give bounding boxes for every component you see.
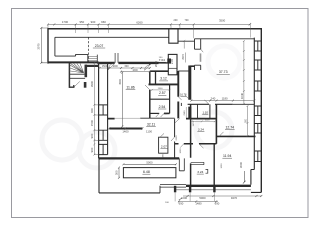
svg-text:2.54: 2.54 [159,105,166,109]
stair outer wall [68,63,70,88]
wall column junction [169,29,178,44]
wall 32.11 east [174,119,176,159]
svg-text:900: 900 [90,147,94,152]
svg-text:900: 900 [91,20,96,24]
svg-text:9470: 9470 [231,196,238,200]
stair newel bar [85,65,88,78]
svg-text:6.48: 6.48 [143,170,150,174]
wall right exterior [260,28,262,192]
pier ext lines [175,192,214,201]
lintel 32.11 [109,127,142,129]
doorway 37.73 jambs [195,39,201,70]
dim ext lines top [48,24,251,38]
dim terrace [122,163,176,165]
gate dashed line [88,37,90,62]
dim row bottom 2 [178,200,218,202]
wall 3.24l west [190,104,192,186]
dim vert corridor top [183,40,185,63]
stair landing walls [69,73,84,75]
svg-text:1180: 1180 [222,96,228,100]
dim terrace 300 [118,167,120,179]
pier 1 [174,186,176,193]
wall bottom right step [251,170,261,193]
terrace stoop [179,158,184,170]
svg-text:7.04: 7.04 [159,58,165,62]
door leaf 11.86 lower [145,85,150,90]
stair treads upper flight [88,56,98,60]
svg-text:1000: 1000 [221,163,223,169]
svg-text:3.12: 3.12 [160,77,167,81]
wall bottom thin outer [176,189,251,191]
pier 3 [213,186,215,193]
svg-text:3.24: 3.24 [197,170,203,174]
wall top inner [178,39,254,41]
wall 11.94 west [213,144,215,186]
wall x216 [215,104,217,144]
svg-text:1600: 1600 [132,69,138,72]
dim vert 11.86 [121,72,123,128]
door leaf y144 [199,144,204,149]
door leaf 2.07 [160,133,164,137]
svg-text:600: 600 [125,65,130,68]
watermark blobs [42,46,240,168]
svg-text:700: 700 [185,19,190,22]
stair fan treads [69,63,83,73]
wall under treads [85,65,99,67]
stair top landing [97,55,107,64]
svg-text:1700: 1700 [62,20,69,24]
svg-text:11.94: 11.94 [223,154,231,158]
wall right inner [253,38,255,170]
svg-text:300: 300 [115,170,119,175]
dim row bottom 1 [183,195,262,197]
svg-text:3.24: 3.24 [198,128,204,132]
dim line 2.57 [151,89,171,91]
svg-text:2.07: 2.07 [161,144,167,148]
svg-text:2000: 2000 [176,135,178,141]
wall y144 [175,143,217,145]
dim col left windows [93,62,98,156]
niche jambs [115,53,118,63]
door tick 32.11 east [171,137,175,141]
dim row top [48,23,251,25]
svg-text:3500: 3500 [119,79,122,85]
wall 3.12 left [155,71,157,84]
stair door leaf [74,81,80,86]
wall int vertical x150 [149,63,151,119]
wall 37.73 bottom [188,103,233,105]
svg-text:2980: 2980 [184,110,186,116]
window R1 [254,41,261,51]
wall room32 bottom [99,157,180,159]
svg-text:1040: 1040 [240,92,244,99]
stair bottom stub left [69,85,73,88]
svg-text:1000: 1000 [112,65,118,68]
dim chain right inner [243,40,245,105]
wall 2.57/2.54 divider [150,98,170,100]
window R4 [254,106,261,116]
svg-text:2.05: 2.05 [170,58,174,64]
stair bottom stub right [84,82,87,88]
wall porch bottom [99,192,160,194]
svg-text:900: 900 [90,108,94,113]
wall 37.73 west [188,66,191,119]
window R6 [254,151,261,162]
svg-text:23.07: 23.07 [95,44,104,48]
duct 2.05 box [168,54,177,74]
svg-text:1000: 1000 [181,196,188,200]
wall duct x169.6 [169,85,171,114]
svg-text:32.11: 32.11 [147,123,155,127]
svg-text:16.78: 16.78 [180,94,187,97]
dim garage left [40,27,48,64]
wall garage-main divider [99,62,159,64]
svg-text:1480: 1480 [195,202,202,206]
wall porch left [98,158,100,193]
halfwall 3.24l [191,162,204,164]
svg-text:1500: 1500 [90,119,94,126]
svg-text:5000: 5000 [199,196,206,200]
svg-text:200: 200 [174,19,179,22]
svg-text:3500: 3500 [219,18,226,22]
dim arrow bottom right [243,171,246,184]
door leaf 32.11 [175,119,180,123]
svg-text:900: 900 [90,133,94,138]
wall y118 [108,118,217,120]
svg-text:1000: 1000 [205,120,211,122]
wall 3.12 top [150,70,168,72]
wall bottom exterior [186,185,251,187]
wall left inner [107,63,109,155]
svg-text:6260: 6260 [136,20,143,24]
wall garage inner [55,37,169,62]
wall garage bottom [48,61,99,63]
wall hall west [177,71,179,118]
dim row2 11.86 [120,71,151,73]
pier at column [167,59,171,63]
svg-text:11.86: 11.86 [126,85,134,89]
wall top exterior [48,28,261,30]
svg-text:5000: 5000 [146,160,153,164]
terrace 6.48 [123,168,175,178]
wall under 3.12 [149,83,179,85]
door leaf 11.86 upper [145,65,150,71]
wall porch east [159,186,161,193]
svg-text:3900: 3900 [90,80,94,87]
dim chain right inner low [247,105,249,137]
svg-text:690: 690 [215,202,220,206]
wall 12.74 bottom [216,135,255,137]
svg-text:690: 690 [179,202,184,206]
dim row 11.86 [99,67,151,69]
svg-text:240: 240 [211,96,216,100]
door leaf hall-west [178,97,181,100]
svg-text:12.74: 12.74 [225,125,234,129]
svg-text:1.10: 1.10 [202,111,208,115]
svg-text:950: 950 [79,20,84,24]
dim minor central [186,107,216,122]
svg-text:2000: 2000 [154,60,158,67]
svg-text:1300: 1300 [158,88,164,90]
door leaf 37.73 open [200,53,202,61]
svg-text:2.57: 2.57 [159,91,166,95]
dim ticks top [47,23,251,25]
door jamb 3.24l [206,170,208,174]
svg-text:1100: 1100 [146,129,152,133]
window R5 [254,124,261,134]
door jamb bar hall [180,103,182,106]
window L3 [99,144,108,154]
svg-text:1000: 1000 [180,148,182,154]
wall garage left [47,28,49,64]
svg-text:1400: 1400 [122,129,129,133]
svg-text:3070: 3070 [37,43,41,50]
dim row inner right [190,100,255,102]
dim lintel [108,127,143,129]
window R3 [254,81,261,91]
room 2.07 box [159,137,168,153]
door leaf 11.94 [219,132,224,137]
window L2 [99,130,108,140]
svg-text:2970: 2970 [182,54,185,60]
svg-text:960: 960 [101,20,106,24]
pier 2 [189,186,191,193]
door leaf 12.74 [205,100,210,105]
dim arrow porch [179,198,182,200]
window R2 [254,60,261,70]
svg-text:1500: 1500 [102,65,108,68]
wall left exterior [98,63,100,159]
window L1 [99,105,108,115]
wall wc divider [197,104,199,118]
svg-text:37.73: 37.73 [219,70,228,74]
svg-text:1970: 1970 [193,121,195,127]
wall hall top [178,70,190,72]
svg-text:3000: 3000 [239,161,243,168]
door leaf hall [185,95,190,99]
wall x210 [209,104,211,118]
wall 2.54 bottom [150,112,159,114]
